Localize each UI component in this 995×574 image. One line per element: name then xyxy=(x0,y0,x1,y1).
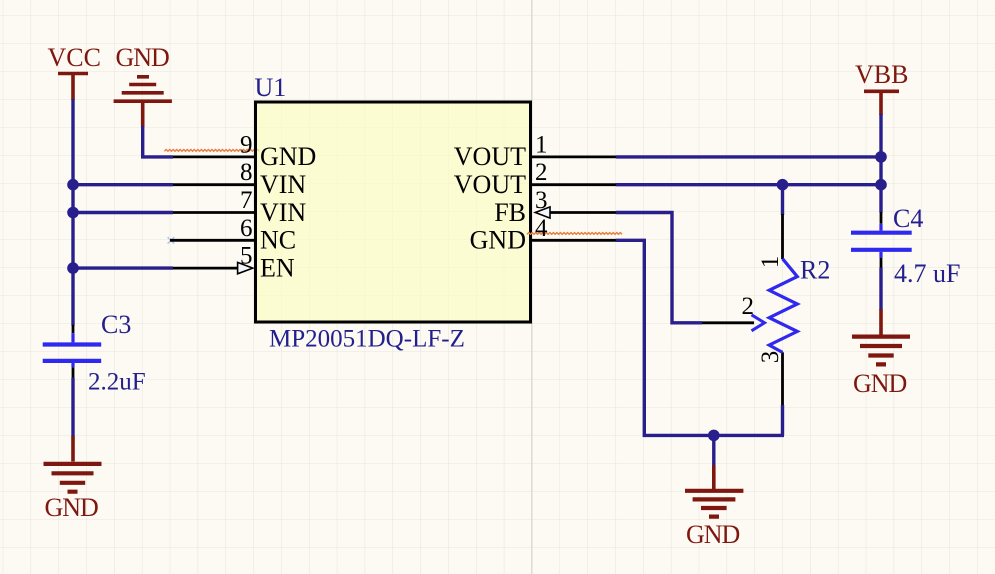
wire C4 down xyxy=(879,268,882,311)
wire VBB down to C4 xyxy=(879,114,882,213)
svg-text:GND: GND xyxy=(470,226,526,255)
junction dot VOUT1/VBB xyxy=(875,151,887,163)
pin R2-1 line xyxy=(781,214,784,259)
svg-text:C4: C4 xyxy=(893,204,923,233)
resistor R2 zigzag xyxy=(769,259,797,353)
wire R2 pin3 stub xyxy=(781,405,784,435)
svg-text:6: 6 xyxy=(240,215,253,242)
power port VBB xyxy=(855,60,908,115)
svg-text:9: 9 xyxy=(240,131,253,158)
pin R2-3 line xyxy=(781,352,784,406)
pin 7 VIN line xyxy=(173,211,255,214)
wire EN pin5 xyxy=(72,266,174,269)
svg-text:1: 1 xyxy=(535,131,548,158)
svg-text:NC: NC xyxy=(260,226,296,255)
ground GND bottom-middle xyxy=(685,465,743,549)
capacitor C3 xyxy=(43,333,101,367)
wire VOUT1 to VBB xyxy=(616,155,881,158)
svg-text:VIN: VIN xyxy=(260,170,306,199)
svg-text:FB: FB xyxy=(494,198,526,227)
svg-text:VCC: VCC xyxy=(48,43,101,72)
wire GND to pin9 xyxy=(143,126,173,157)
svg-text:C3: C3 xyxy=(101,310,131,339)
svg-text:1: 1 xyxy=(757,256,784,269)
pin C3-1 stub xyxy=(72,325,75,333)
pin C4-2 stub xyxy=(880,258,883,269)
junction dot R2 top xyxy=(777,179,789,191)
svg-text:VOUT: VOUT xyxy=(454,170,526,199)
major grid line xyxy=(531,0,533,574)
svg-text:2.2uF: 2.2uF xyxy=(88,369,146,396)
pin R2-2 line xyxy=(702,321,754,324)
svg-text:8: 8 xyxy=(240,159,253,186)
svg-text:7: 7 xyxy=(240,187,253,214)
junction dot VIN8 xyxy=(67,179,79,191)
junction dot bottom GND xyxy=(708,430,720,442)
pin 5 EN line xyxy=(173,267,238,270)
wire C3 down xyxy=(71,378,74,437)
svg-text:GND: GND xyxy=(686,520,740,549)
wire FB to R2 wiper xyxy=(616,213,702,323)
svg-text:VBB: VBB xyxy=(855,60,908,89)
wire R2 pin1 stub xyxy=(781,185,784,215)
pin 5 input triangle xyxy=(238,262,253,273)
pin 6 NC line xyxy=(170,239,255,242)
wire VIN pin8 xyxy=(72,183,174,186)
compile error squiggle pin4 xyxy=(527,233,622,235)
pin C3-2 stub xyxy=(72,367,75,378)
power port GND (top, inverted earth) xyxy=(114,43,172,127)
svg-text:2: 2 xyxy=(742,293,755,320)
wire VCC bus vertical xyxy=(71,99,74,326)
wire bottom GND stem xyxy=(712,435,715,466)
wire GND pin4 down xyxy=(616,240,784,435)
op-amp body U1 rectangle xyxy=(256,102,531,322)
resistor R2 wiper arrow xyxy=(752,315,765,331)
pin 9 GND line xyxy=(173,155,255,158)
pin 1 VOUT line xyxy=(531,155,616,158)
junction dot EN xyxy=(67,262,79,274)
wire VIN pin7 xyxy=(72,211,174,214)
svg-text:MP20051DQ-LF-Z: MP20051DQ-LF-Z xyxy=(269,326,465,353)
svg-text:VOUT: VOUT xyxy=(454,142,526,171)
pin 4 GND line xyxy=(531,239,616,242)
power port VCC xyxy=(48,43,101,100)
svg-text:GND: GND xyxy=(260,142,316,171)
svg-text:5: 5 xyxy=(240,243,253,270)
wire VOUT2 to C4 xyxy=(616,183,881,186)
pin C4-1 stub xyxy=(880,212,883,224)
svg-text:4.7 uF: 4.7 uF xyxy=(894,259,960,288)
no-ERC cross on NC pin xyxy=(168,237,175,243)
pin 8 VIN line xyxy=(173,183,255,186)
capacitor C4 xyxy=(851,224,912,258)
svg-text:3: 3 xyxy=(535,187,548,214)
compile error squiggle pin9 xyxy=(164,149,259,151)
svg-text:EN: EN xyxy=(260,253,295,282)
svg-text:R2: R2 xyxy=(800,255,830,284)
svg-text:GND: GND xyxy=(853,369,907,398)
pin 2 VOUT line xyxy=(531,183,616,186)
svg-text:3: 3 xyxy=(757,351,784,364)
junction dot VIN7 xyxy=(67,207,79,219)
svg-text:GND: GND xyxy=(116,43,170,72)
ground GND bottom-left (under C3) xyxy=(44,436,102,522)
svg-text:GND: GND xyxy=(45,493,99,522)
pin 3 FB line xyxy=(549,211,616,214)
svg-text:U1: U1 xyxy=(255,73,287,102)
svg-text:2: 2 xyxy=(535,159,548,186)
svg-text:VIN: VIN xyxy=(260,198,306,227)
junction dot VOUT2/C4 xyxy=(875,179,887,191)
svg-text:4: 4 xyxy=(535,215,548,242)
ground GND right (under C4) xyxy=(852,309,910,398)
pin 3 input triangle xyxy=(535,207,550,218)
